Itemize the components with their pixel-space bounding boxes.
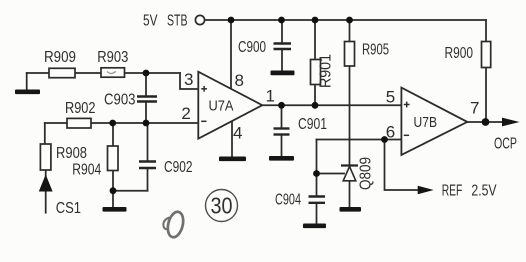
diode Q809 — [341, 166, 358, 181]
svg-text:R903: R903 — [97, 49, 128, 66]
ground C901 — [269, 156, 294, 161]
svg-text:3: 3 — [184, 70, 193, 89]
junction node R904 top — [109, 120, 116, 127]
svg-text:R908: R908 — [56, 145, 87, 162]
junction node pin7 R900 — [482, 118, 490, 126]
capacitor C901 — [274, 127, 290, 129]
svg-text:U7B: U7B — [414, 114, 438, 131]
wire REF branch — [385, 140, 419, 191]
wire pin6 net — [317, 139, 402, 141]
ground C900 — [271, 71, 295, 76]
junction node C902 R904 bottom — [110, 187, 117, 194]
svg-text:C901: C901 — [298, 116, 327, 133]
junction top rail R905 — [346, 17, 353, 24]
svg-text:8: 8 — [235, 71, 244, 90]
wire C900 column — [281, 20, 283, 44]
wire CS1 shaft — [45, 190, 47, 213]
svg-text:C904: C904 — [275, 192, 301, 209]
svg-text:4: 4 — [233, 124, 242, 143]
wire pin4 column — [231, 121, 233, 157]
ground U7A pin4 — [219, 157, 246, 162]
resistor R902 — [67, 118, 91, 128]
junction node C904 Q809 — [313, 170, 320, 177]
resistor R901 — [311, 60, 321, 85]
svg-text:6: 6 — [386, 123, 395, 142]
svg-text:2.5V: 2.5V — [471, 183, 496, 200]
svg-text:STB: STB — [167, 13, 188, 30]
wire top rail 5V STB — [205, 19, 486, 21]
resistor R905 — [345, 42, 355, 67]
ground Q809 — [340, 207, 362, 212]
wire R904 bottom — [112, 170, 114, 207]
svg-text:30: 30 — [211, 193, 233, 219]
svg-text:U7A: U7A — [209, 97, 234, 114]
wire R900 bottom to pin7 node — [485, 68, 487, 123]
resistor R903 — [101, 68, 125, 77]
wire pin8 column — [230, 20, 232, 90]
junction node R901 bottom — [312, 102, 319, 109]
svg-text:R904: R904 — [72, 161, 101, 178]
capacitor C903 — [137, 95, 157, 97]
junction node pin1 C901 — [278, 102, 285, 109]
svg-text:5: 5 — [386, 87, 395, 106]
junction top rail R901 — [312, 17, 319, 24]
svg-text:2: 2 — [181, 104, 190, 123]
arrow OCP output — [502, 118, 520, 127]
arrow REF output — [418, 186, 434, 194]
svg-text:5V: 5V — [143, 13, 158, 30]
resistor R904 — [108, 146, 119, 171]
capacitor C904 — [309, 195, 326, 197]
wire pin3 step — [180, 73, 198, 89]
junction node pin6 REF — [381, 136, 388, 143]
svg-text:R901: R901 — [318, 54, 335, 88]
svg-text:REF: REF — [442, 183, 463, 200]
junction node R903 C903 — [143, 70, 150, 77]
capacitor C902 — [139, 160, 156, 162]
resistor R908 — [40, 144, 51, 170]
svg-text:Q809: Q809 — [358, 157, 375, 190]
wire Q809 anode — [349, 181, 351, 207]
wire R901 bottom — [314, 85, 316, 106]
wire ground stub left — [26, 73, 28, 90]
wire upper-left input R909 R903 — [27, 72, 180, 74]
resistor R909 — [49, 68, 75, 77]
R903 check mark inside — [107, 72, 116, 74]
wire R905 bottom to Q809 — [349, 66, 351, 166]
arrow CS1 — [39, 175, 53, 192]
junction node C903 C902 — [143, 120, 150, 127]
wire C904 column — [316, 174, 318, 197]
op-amp U7A — [198, 72, 262, 139]
ground top-left — [15, 90, 40, 95]
svg-text:R909: R909 — [44, 49, 76, 66]
wire C902 bottom elbow — [113, 190, 148, 192]
op-amp U7B — [401, 88, 467, 155]
svg-text:1: 1 — [266, 87, 275, 106]
svg-text:C900: C900 — [238, 39, 266, 56]
ground R904 C902 — [103, 207, 127, 212]
handwritten oval mark — [163, 210, 185, 239]
svg-text:R900: R900 — [445, 45, 474, 62]
svg-text:OCP: OCP — [494, 136, 517, 153]
svg-text:C903: C903 — [104, 92, 136, 109]
wire C901 column — [281, 105, 283, 128]
wire U7A output middle rail — [262, 104, 401, 106]
svg-text:R902: R902 — [65, 100, 96, 117]
svg-text:7: 7 — [470, 99, 479, 118]
wire R900 drop — [485, 20, 487, 42]
svg-text:R905: R905 — [362, 42, 389, 59]
ground C904 — [303, 224, 326, 229]
wire R901 top — [314, 20, 316, 60]
resistor R900 — [482, 42, 491, 68]
svg-text:C902: C902 — [164, 159, 193, 176]
wire node to Q809 — [317, 173, 345, 175]
note circle 30 — [206, 190, 238, 222]
junction top rail pin8 — [228, 17, 235, 24]
svg-text:CS1: CS1 — [56, 200, 81, 217]
wire R905 top — [349, 20, 351, 42]
wire pin6 elbow down — [316, 140, 318, 174]
wire R908 column — [44, 123, 46, 144]
capacitor C900 — [274, 42, 292, 44]
terminal circle 5V STB — [195, 15, 204, 24]
wire C903 column — [145, 73, 147, 97]
wire R908 to arrow — [45, 170, 47, 176]
junction top rail C900 — [278, 17, 285, 24]
wire C902 column — [147, 123, 149, 162]
wire R904 top — [112, 123, 114, 146]
wire lower-left input R902 — [45, 122, 199, 124]
wire U7B output — [467, 121, 503, 123]
